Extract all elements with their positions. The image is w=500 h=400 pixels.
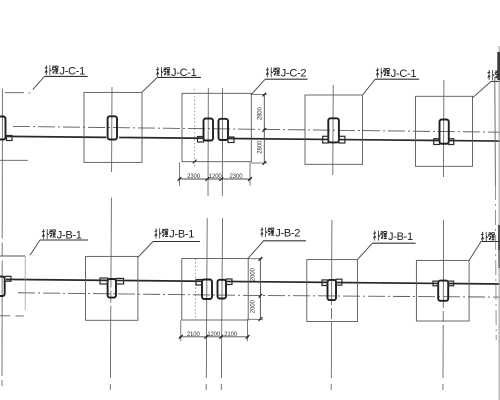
- svg-text:2000: 2000: [251, 268, 257, 282]
- label B2 text 补强J-B-1: [155, 229, 194, 241]
- vertical dim line C-F2 right: [263, 95, 265, 164]
- beam solid line row B segment 3: [226, 280, 328, 283]
- label B3 leader: [248, 241, 264, 259]
- beam solid line row B segment 2: [116, 279, 202, 282]
- partial foundation C-0 top dash-dot edge: [5, 92, 30, 94]
- tick on C-F2 bottom edge at dotted axis: [193, 160, 197, 164]
- pile marker C-0 (left edge): [0, 117, 6, 140]
- pile marker C-F2 right: [219, 119, 229, 140]
- dim tick: [262, 161, 266, 165]
- svg-text:J-C-1: J-C-1: [60, 66, 86, 78]
- label B1 underline: [40, 239, 88, 241]
- pile tab C-0: [7, 136, 13, 141]
- label B5 text (cut at right edge): [481, 232, 494, 241]
- svg-text:2800: 2800: [258, 140, 264, 154]
- pile marker C-F3: [328, 118, 339, 142]
- beam solid line row C segment 4: [339, 139, 440, 142]
- left grid vertical line: [1, 89, 3, 377]
- label B5 leader: [469, 242, 481, 261]
- foundation C-F2 square (double pile): [182, 93, 251, 161]
- dotted axis line inside C-F2: [194, 89, 196, 166]
- pile tab B-F3 right: [336, 279, 342, 285]
- svg-text:1200: 1200: [209, 174, 223, 180]
- dim tick: [219, 177, 223, 181]
- dimension line C-F2 bottom: [179, 178, 252, 180]
- beam solid line row C segment 5: [449, 140, 500, 142]
- label B3 underline: [263, 240, 306, 242]
- pile tab C-F2 right: [228, 137, 234, 143]
- pile center line C-F2 left: [207, 88, 209, 196]
- dim tick: [205, 177, 209, 181]
- dim tick: [248, 177, 252, 181]
- label C4 underline: [375, 78, 419, 80]
- label C2 underline: [157, 76, 201, 78]
- dimension extension line B-F2 bottom left: [180, 320, 182, 341]
- pile center line C-F2 right: [221, 88, 223, 196]
- pile marker B-0 (left edge): [0, 277, 5, 296]
- partial foundation B-0 bottom dash edge: [0, 315, 24, 317]
- grid vertical through B-F3: [330, 220, 333, 378]
- label C3 text 补强J-C-2: [266, 68, 306, 80]
- pile marker B-F4: [438, 281, 448, 301]
- vertical dim C-F2 top extension: [251, 94, 267, 96]
- pile marker B-F2 left: [202, 280, 212, 300]
- vertical dim B-F2 top extension: [247, 258, 262, 260]
- beam solid line row B segment 1: [6, 278, 108, 281]
- right grid vertical line (dash-dot part): [494, 185, 497, 340]
- svg-text:2000: 2000: [251, 300, 257, 314]
- label C1 leader: [33, 76, 45, 89]
- dim tick: [205, 335, 209, 339]
- label C1 text 补强J-C-1: [45, 66, 85, 78]
- label B1 text 补强J-B-1: [42, 229, 81, 241]
- label C2 text 补强J-C-1: [156, 67, 196, 79]
- foundation C-F4 square: [416, 96, 473, 166]
- beam solid line row C segment 2: [119, 136, 203, 139]
- label B2 underline: [153, 241, 200, 243]
- dotted axis line inside B-F2: [194, 259, 196, 320]
- grid vertical B-F3 bottom dash: [330, 384, 332, 390]
- left grid vertical dash bottom: [1, 380, 3, 386]
- pile tab B-F2 right: [226, 279, 232, 285]
- beam solid line row B segment 5: [448, 283, 500, 285]
- pile marker C-F4: [440, 120, 449, 144]
- pile tab B-F3 left: [322, 280, 328, 286]
- grid vertical through B-F1 (long, from between rows): [110, 198, 111, 378]
- dim tick: [179, 335, 183, 339]
- label B4 underline: [372, 242, 415, 244]
- vertical dim line B-F2 right: [259, 259, 261, 320]
- dimension extension line C-F2 bottom left: [179, 162, 181, 185]
- foundation C-F1 square: [84, 92, 142, 162]
- dim tick: [219, 335, 223, 339]
- pile marker B-F2 right: [218, 280, 227, 299]
- label B1 leader: [30, 240, 40, 255]
- right scan edge band: [498, 46, 500, 400]
- dim tick: [178, 177, 182, 181]
- right scan edge dark segment top: [497, 52, 500, 80]
- label B4 text 补强J-B-1: [373, 231, 412, 243]
- svg-text:1200: 1200: [207, 332, 221, 338]
- vertical dim B-F2 bottom extension: [247, 318, 263, 320]
- svg-text:J-B-1: J-B-1: [388, 231, 413, 243]
- partial foundation B-0 top edge: [0, 255, 25, 257]
- right scan edge dark segment middle: [498, 225, 500, 250]
- label C4 leader: [363, 79, 376, 95]
- label B5 underline: [481, 241, 500, 243]
- grid vertical B-F1 bottom dash: [109, 384, 111, 390]
- beam solid line row C segment 1: [7, 135, 107, 138]
- svg-text:J-C-2: J-C-2: [281, 68, 307, 80]
- label C2 leader: [142, 77, 158, 92]
- foundation B-F2 square (double pile): [182, 259, 248, 321]
- grid vertical B-F4 bottom dash: [442, 384, 444, 390]
- beam solid line row C segment 3: [228, 138, 328, 141]
- svg-text:J-B-1: J-B-1: [169, 229, 194, 241]
- foundation B-F1 square: [86, 256, 138, 320]
- pile center line B-F2 left: [205, 218, 208, 378]
- pile tab B-F2 left: [196, 280, 202, 286]
- svg-text:2100: 2100: [224, 332, 238, 338]
- dim tick: [259, 257, 263, 261]
- svg-text:2100: 2100: [187, 332, 201, 338]
- label C3 leader: [251, 79, 265, 94]
- label C5 underline: [491, 80, 500, 82]
- pile tab B-F4 right: [448, 281, 453, 286]
- dimension extension line C-F2 bottom right: [249, 162, 251, 185]
- dimension line B-F2 bottom: [179, 336, 249, 338]
- grid vertical through C-F1: [111, 87, 113, 172]
- foundation B-F3 square: [307, 260, 358, 322]
- pile center line B-F2 right: [221, 218, 222, 378]
- pile marker C-F1: [108, 116, 117, 139]
- pile tab B-F4 left: [433, 281, 438, 286]
- grid vertical through C-F4: [443, 80, 445, 177]
- svg-text:J-C-1: J-C-1: [391, 68, 417, 80]
- grid vertical through C-F3: [332, 85, 334, 175]
- foundation C-F3 square: [305, 95, 363, 164]
- pile tab B-0: [5, 276, 11, 281]
- label C4 text 补强J-C-1: [376, 68, 416, 80]
- svg-text:J-B-2: J-B-2: [275, 228, 300, 240]
- pile tab C-F4 right: [449, 139, 454, 145]
- dim tick: [259, 317, 263, 321]
- pile tab B-F1 right: [116, 278, 124, 284]
- dimension extension line B-F2 bottom right: [247, 320, 249, 341]
- pile marker B-F3: [328, 280, 337, 300]
- pile tab C-F4 left: [434, 139, 440, 145]
- label B4 leader: [357, 243, 372, 259]
- dim tick: [262, 93, 266, 97]
- label C3 underline: [265, 78, 307, 80]
- partial foundation C-0 bottom edge: [0, 159, 28, 161]
- dim tick: [259, 294, 263, 298]
- partial foundation B-0 right edge: [24, 256, 26, 310]
- pile tab C-F2 left: [198, 137, 204, 143]
- pile marker B-F1: [108, 279, 116, 298]
- pile center line B-F2 right bottom dash: [220, 384, 222, 390]
- axis center line row B (dash-dot horizontal): [18, 293, 500, 297]
- pile center line B-F2 left bottom dash: [205, 384, 207, 390]
- svg-text:2300: 2300: [230, 174, 244, 180]
- pile marker C-F2 left: [204, 119, 214, 141]
- label C5 text (cut at right edge): [488, 70, 500, 79]
- vertical dim C-F2 bottom extension: [251, 162, 267, 164]
- svg-text:2300: 2300: [187, 174, 201, 180]
- dim tick: [246, 335, 250, 339]
- label B2 leader: [138, 242, 153, 258]
- label B3 text 补强J-B-2: [261, 228, 300, 240]
- label C5 leader: [473, 81, 492, 97]
- beam solid line row B segment 4: [336, 281, 438, 284]
- pile tab B-F1 left: [100, 278, 108, 284]
- axis center line row C (dash-dot horizontal): [13, 126, 500, 132]
- pile tab C-F3 right: [339, 136, 345, 143]
- foundation B-F4 square: [416, 260, 469, 321]
- pile tab C-F3 left: [323, 136, 329, 143]
- dim tick: [262, 128, 266, 132]
- svg-text:2800: 2800: [258, 106, 264, 120]
- grid vertical through B-F4: [442, 220, 445, 378]
- label C1 underline: [44, 75, 87, 77]
- right grid vertical line (solid part): [494, 77, 497, 185]
